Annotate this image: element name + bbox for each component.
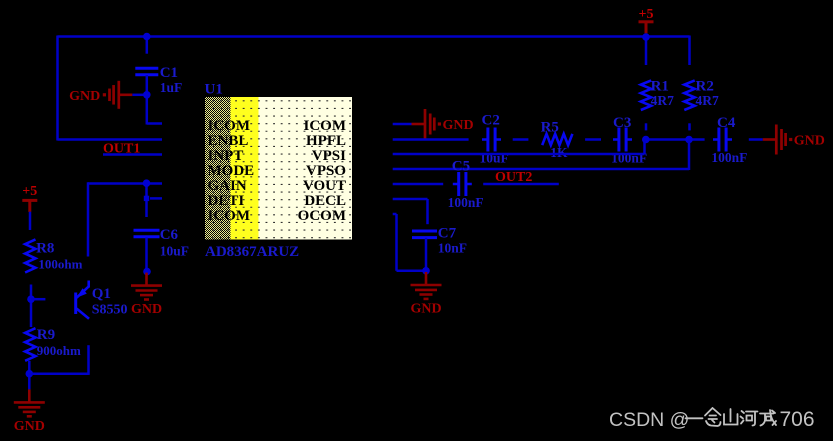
svg-text:706: 706 (780, 408, 815, 431)
svg-text:+5: +5 (22, 184, 37, 199)
svg-text:MODE: MODE (208, 163, 255, 179)
svg-text:C6: C6 (160, 227, 179, 243)
svg-text:GND: GND (443, 118, 474, 133)
svg-text:C3: C3 (613, 115, 631, 131)
svg-text:INPT: INPT (208, 148, 244, 164)
svg-text:100nF: 100nF (448, 195, 484, 210)
svg-text:GND: GND (131, 302, 162, 317)
svg-text:Q1: Q1 (92, 286, 111, 302)
svg-text:ICOM: ICOM (304, 118, 347, 134)
svg-text:DECL: DECL (304, 193, 346, 209)
svg-text:VOUT: VOUT (303, 178, 346, 194)
svg-text:VPSO: VPSO (306, 163, 346, 179)
svg-text:AD8367ARUZ: AD8367ARUZ (205, 244, 299, 260)
svg-text:GND: GND (794, 134, 825, 149)
svg-text:OUT2: OUT2 (495, 170, 532, 185)
svg-text:4R7: 4R7 (651, 93, 674, 108)
svg-text:ICOM: ICOM (208, 208, 251, 224)
svg-text:4R7: 4R7 (696, 93, 719, 108)
svg-text:R9: R9 (37, 327, 55, 343)
svg-text:CSDN @: CSDN @ (609, 409, 689, 431)
svg-text:1K: 1K (550, 145, 568, 160)
svg-text:C1: C1 (160, 65, 178, 81)
svg-text:10nF: 10nF (438, 241, 467, 256)
svg-text:DETI: DETI (208, 193, 245, 209)
svg-text:OUT1: OUT1 (103, 142, 140, 157)
svg-text:C2: C2 (482, 113, 500, 129)
svg-text:C4: C4 (717, 115, 736, 131)
svg-text:ICOM: ICOM (208, 118, 251, 134)
svg-text:100nF: 100nF (711, 150, 747, 165)
svg-text:R5: R5 (541, 120, 559, 136)
svg-text:HPFL: HPFL (306, 133, 346, 149)
svg-text:100ohm: 100ohm (38, 257, 82, 272)
svg-text:10uF: 10uF (160, 244, 189, 259)
svg-text:GND: GND (410, 302, 441, 317)
svg-text:C7: C7 (438, 226, 457, 242)
svg-text:S8550: S8550 (92, 303, 128, 318)
svg-text:1uF: 1uF (160, 80, 183, 95)
svg-text:C5: C5 (452, 159, 470, 175)
svg-text:U1: U1 (205, 82, 223, 98)
svg-text:GND: GND (14, 419, 45, 434)
svg-text:GND: GND (69, 89, 100, 104)
svg-text:+5: +5 (639, 7, 654, 22)
svg-text:R8: R8 (36, 241, 54, 257)
svg-text:ENBL: ENBL (208, 133, 249, 149)
svg-text:GAIN: GAIN (208, 178, 247, 194)
svg-text:OCOM: OCOM (298, 208, 346, 224)
svg-text:900ohm: 900ohm (37, 343, 81, 358)
svg-text:VPSI: VPSI (312, 148, 346, 164)
